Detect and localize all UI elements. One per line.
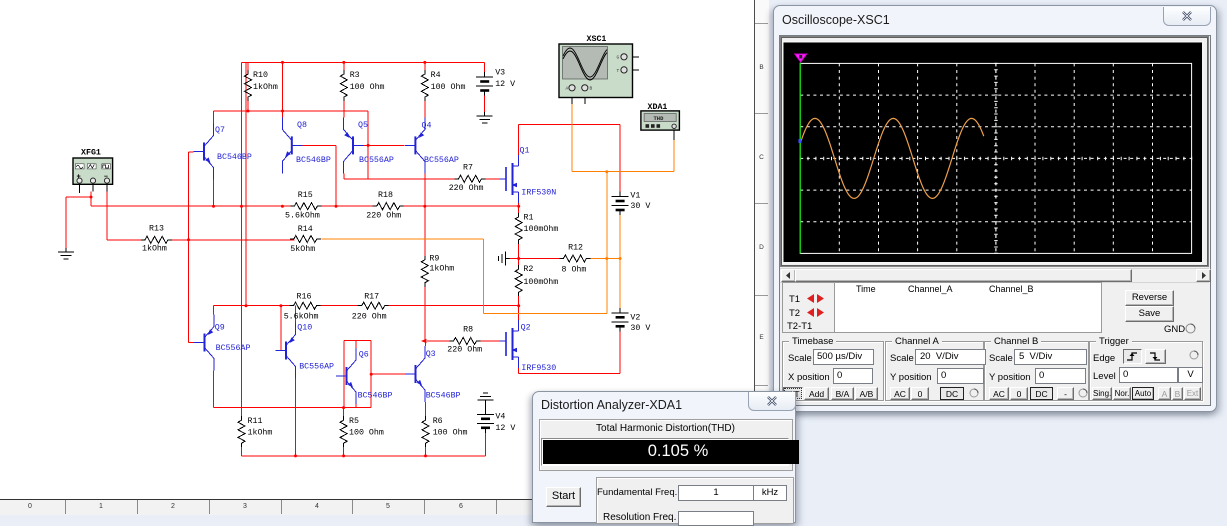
svg-text:R13: R13 [149,225,164,234]
svg-text:BC546BP: BC546BP [296,156,331,165]
svg-text:R18: R18 [378,191,393,200]
svg-text:R12: R12 [568,244,583,253]
svg-text:12 V: 12 V [495,424,515,433]
svg-text:V2: V2 [630,314,640,323]
svg-text:5.6kOhm: 5.6kOhm [285,211,320,221]
svg-text:R3: R3 [350,71,360,80]
svg-text:220 Ohm: 220 Ohm [447,345,482,355]
svg-text:8 Ohm: 8 Ohm [562,265,587,275]
svg-text:100mOhm: 100mOhm [524,224,559,234]
svg-text:30 V: 30 V [630,324,650,333]
svg-text:BC546BP: BC546BP [358,392,393,401]
svg-text:R10: R10 [253,71,268,80]
svg-text:R4: R4 [431,71,441,80]
svg-text:Q5: Q5 [358,121,368,130]
svg-text:Q10: Q10 [297,324,312,333]
svg-text:5kOhm: 5kOhm [290,244,315,254]
svg-text:220 Ohm: 220 Ohm [449,183,484,193]
svg-text:100 Ohm: 100 Ohm [431,82,466,92]
svg-text:IRF530N: IRF530N [521,189,556,198]
svg-text:100 Ohm: 100 Ohm [433,428,468,438]
svg-text:100 Ohm: 100 Ohm [349,428,384,438]
svg-text:220 Ohm: 220 Ohm [352,312,387,322]
svg-text:Q7: Q7 [215,126,225,135]
svg-text:Q6: Q6 [359,351,369,360]
svg-text:R16: R16 [297,293,312,302]
svg-text:R5: R5 [349,417,359,426]
svg-text:G: G [617,55,620,61]
svg-text:1kOhm: 1kOhm [248,428,273,438]
svg-text:Q4: Q4 [422,122,432,131]
svg-text:R8: R8 [463,326,473,335]
svg-text:R6: R6 [433,417,443,426]
svg-text:R17: R17 [364,293,379,302]
svg-text:Q2: Q2 [521,324,531,333]
svg-text:B: B [590,86,593,92]
svg-text:XSC1: XSC1 [587,35,607,44]
svg-text:XFG1: XFG1 [81,149,101,158]
svg-text:+: + [77,173,81,181]
svg-text:1kOhm: 1kOhm [253,82,278,92]
svg-text:R14: R14 [298,225,313,234]
svg-text:Q9: Q9 [215,324,225,333]
svg-text:BC556AP: BC556AP [424,156,459,165]
svg-text:1kOhm: 1kOhm [429,264,454,274]
svg-text:12 V: 12 V [495,80,515,89]
svg-text:1kOhm: 1kOhm [142,244,167,254]
svg-text:T: T [617,68,620,74]
svg-text:R9: R9 [429,255,439,264]
svg-text:5.6kOhm: 5.6kOhm [284,312,319,322]
svg-text:R15: R15 [298,191,313,200]
svg-text:A: A [566,86,569,92]
svg-text:BC556AP: BC556AP [216,344,251,353]
svg-text:IRF9530: IRF9530 [521,364,556,373]
svg-text:V1: V1 [630,192,640,201]
svg-text:V4: V4 [495,413,505,422]
svg-text:−: − [104,173,108,181]
svg-text:R7: R7 [463,164,473,173]
svg-text:100 Ohm: 100 Ohm [350,82,385,92]
svg-text:100mOhm: 100mOhm [523,277,558,287]
svg-text:BC546BP: BC546BP [217,153,252,162]
svg-text:BC556AP: BC556AP [299,363,334,372]
svg-text:30 V: 30 V [630,202,650,211]
svg-text:XDA1: XDA1 [648,103,668,112]
svg-text:R2: R2 [523,265,533,274]
svg-text:THD: THD [654,115,665,122]
svg-text:Q1: Q1 [520,147,530,156]
svg-text:R11: R11 [248,417,263,426]
svg-text:R1: R1 [524,214,534,223]
svg-text:Q8: Q8 [297,121,307,130]
svg-text:Q3: Q3 [426,350,436,359]
svg-text:220 Ohm: 220 Ohm [366,211,401,221]
svg-text:V3: V3 [495,69,505,78]
svg-text:BC546BP: BC546BP [426,392,461,401]
svg-text:BC556AP: BC556AP [359,156,394,165]
